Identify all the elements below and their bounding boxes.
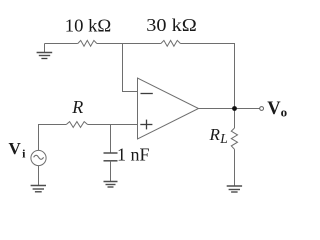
wire [45,43,78,45]
wire [97,43,161,45]
source Vi [31,150,46,165]
svg-text:1 nF: 1 nF [117,145,150,165]
wire [180,44,234,108]
wire (feedback to inverting input) [123,44,138,92]
ground (below Vi) [31,186,46,192]
wire (to non-inverting input) [88,124,138,126]
capacitor C1 1 nF [104,153,118,161]
resistor R1 10 kOhm [78,40,97,46]
terminal Vo (open circle) [260,107,264,111]
svg-text:Vi: Vi [9,139,27,161]
node (output junction dot) [232,106,237,111]
wire [110,161,112,181]
svg-text:10 kΩ: 10 kΩ [65,15,112,35]
svg-text:R: R [71,97,83,117]
op-amp U1 [138,78,199,139]
wire [234,109,236,129]
wire [38,166,40,185]
resistor R [66,122,87,128]
svg-text:RL: RL [209,125,228,146]
resistor RL [231,128,237,149]
ground (top-left) [37,44,53,59]
wire (op-amp output) [199,108,260,110]
wire (source Vi up to R) [39,125,67,151]
ground (below RL) [227,186,242,192]
wire (node to capacitor) [110,125,112,154]
svg-text:Vo: Vo [267,99,287,119]
resistor R2 30 kOhm [161,40,181,46]
svg-text:30 kΩ: 30 kΩ [146,15,197,35]
wire [234,149,236,186]
ground (below capacitor) [104,182,118,188]
